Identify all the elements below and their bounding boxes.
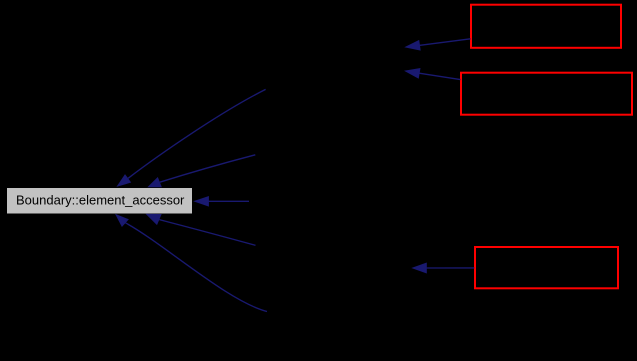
edge C: hidden node to element_accessor (horizontal) — [206, 200, 249, 202]
arrowhead of edge R3 — [411, 263, 427, 274]
edge E: hidden bottom node to element_accessor (long curve) — [125, 223, 267, 312]
arrowhead of edge R2 — [404, 68, 421, 79]
arrowhead of edge R1 — [404, 40, 420, 51]
caller box R1 (red truncated node, top right) — [471, 5, 621, 48]
edge R3 to hidden node: wire — [424, 267, 474, 269]
arrowhead of edge D — [146, 214, 162, 225]
arrowhead of edge B — [147, 177, 162, 187]
caller box R2 (red truncated node, upper right) — [461, 73, 632, 115]
edge D: hidden node to element_accessor (line from lower right) — [159, 220, 255, 246]
edge A: hidden top node to element_accessor (curve) — [128, 89, 266, 178]
edge R1 to hidden node: wire — [418, 39, 471, 46]
arrowhead of edge E — [115, 214, 129, 227]
svg-text:Boundary::element_accessor: Boundary::element_accessor — [16, 193, 185, 208]
edge B: hidden node to element_accessor (shallow line) — [160, 155, 256, 182]
arrowhead of edge C — [193, 196, 209, 207]
edge R2 to hidden node: wire — [418, 73, 461, 80]
caller box R3 (red truncated node, lower right) — [475, 247, 618, 288]
arrowhead of edge A — [116, 174, 131, 187]
node Boundary::element_accessor (grey current node) — [7, 188, 193, 215]
